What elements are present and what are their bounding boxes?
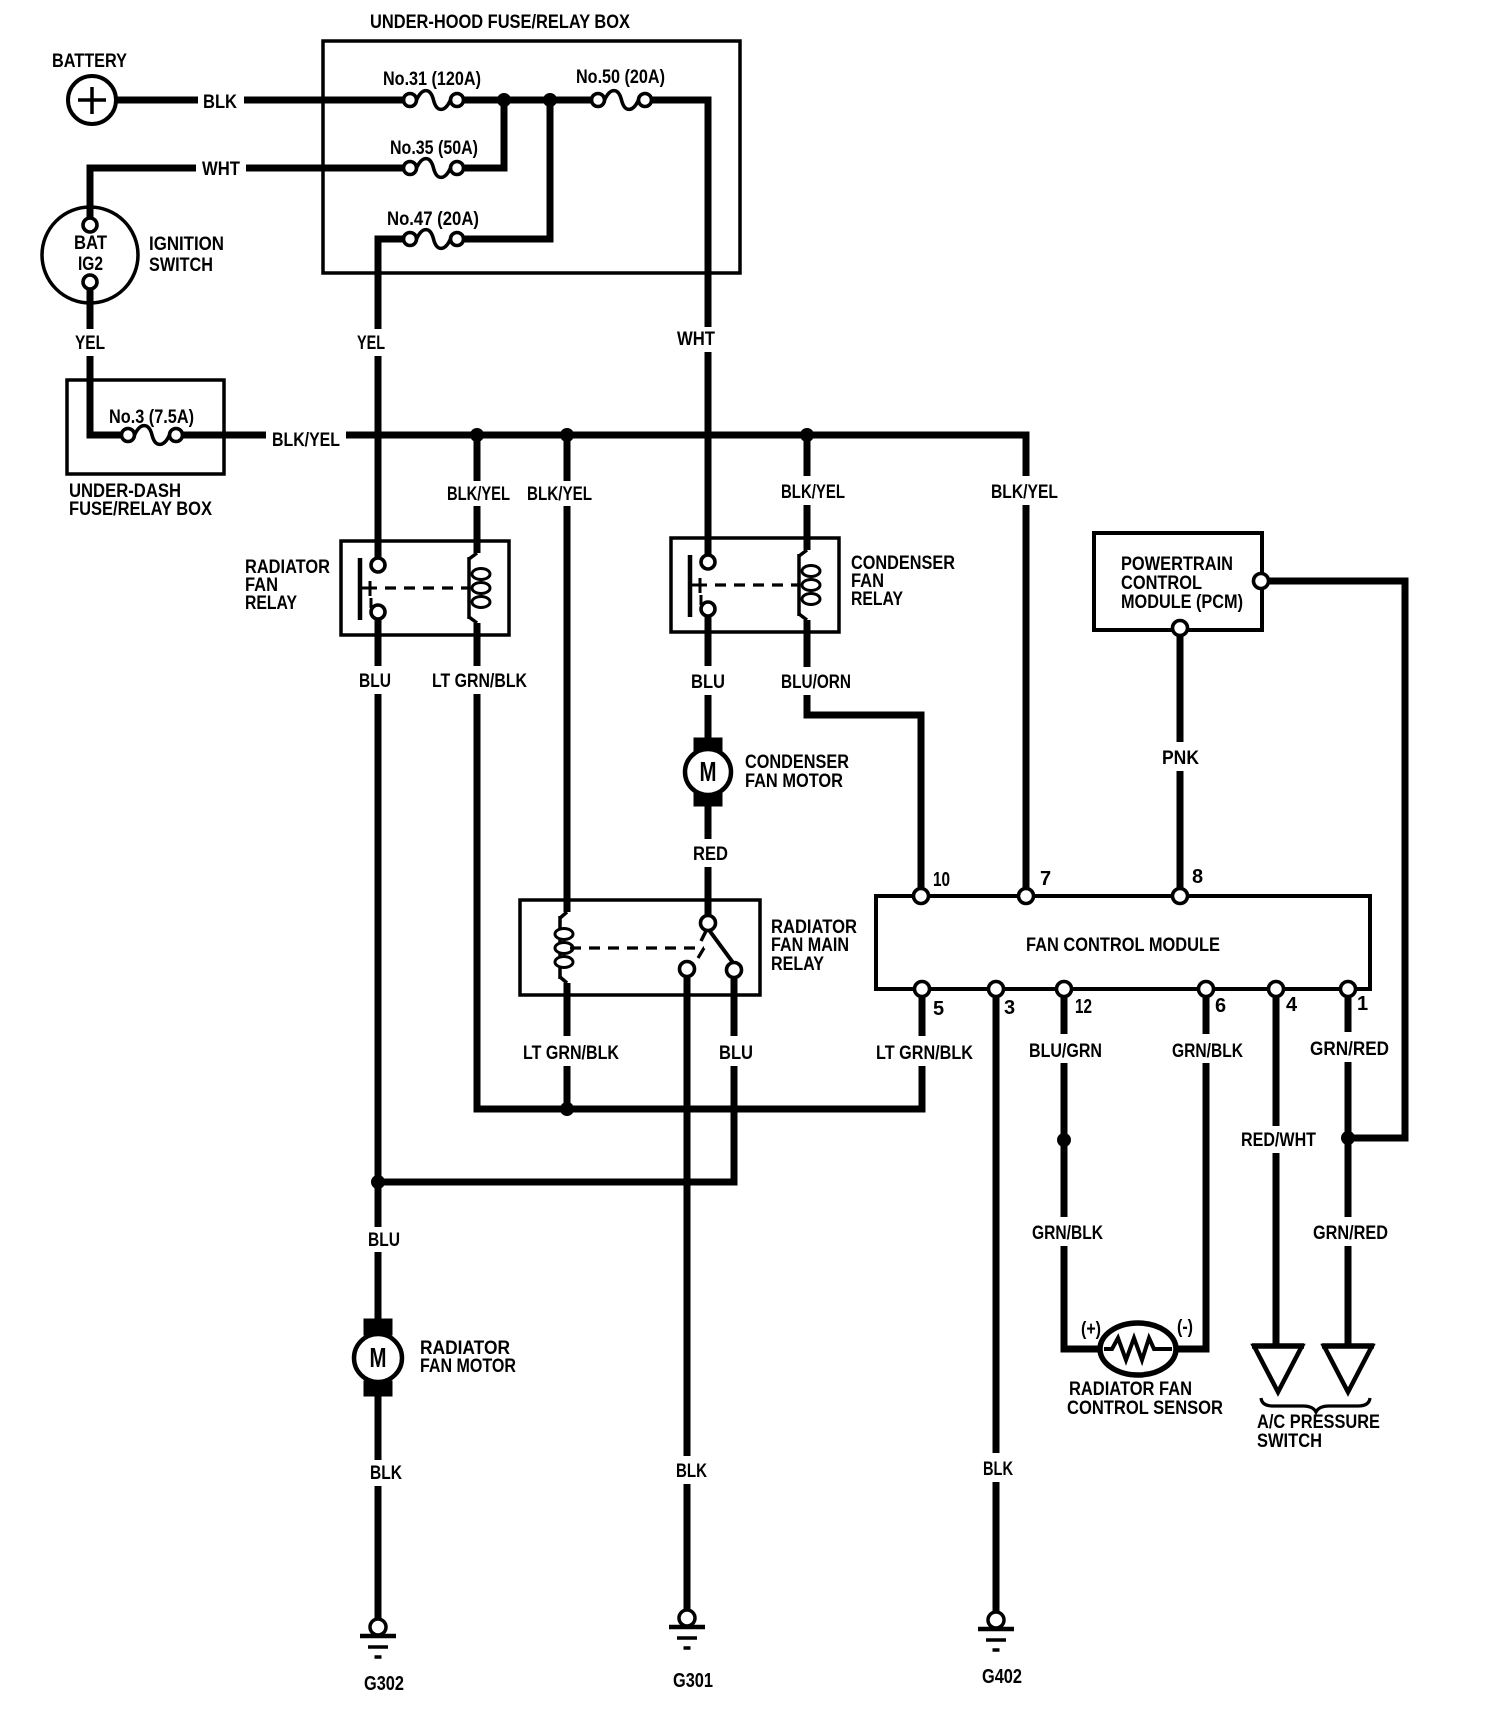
svg-text:IG2: IG2 bbox=[78, 254, 103, 275]
svg-text:3: 3 bbox=[1004, 997, 1015, 1019]
svg-text:(+): (+) bbox=[1081, 1319, 1101, 1340]
svg-text:BLU: BLU bbox=[719, 1043, 753, 1064]
svg-text:RELAY: RELAY bbox=[245, 593, 297, 614]
svg-text:6: 6 bbox=[1215, 995, 1226, 1017]
svg-text:BLK: BLK bbox=[983, 1459, 1013, 1480]
svg-text:BLK/YEL: BLK/YEL bbox=[781, 482, 845, 503]
svg-text:LT GRN/BLK: LT GRN/BLK bbox=[876, 1043, 973, 1064]
svg-text:PNK: PNK bbox=[1162, 748, 1199, 769]
svg-text:FAN MOTOR: FAN MOTOR bbox=[745, 771, 843, 792]
svg-text:RADIATOR FAN: RADIATOR FAN bbox=[1069, 1379, 1192, 1400]
svg-text:BLU: BLU bbox=[359, 671, 391, 692]
svg-text:A/C PRESSURE: A/C PRESSURE bbox=[1257, 1412, 1380, 1433]
svg-text:MODULE (PCM): MODULE (PCM) bbox=[1121, 592, 1243, 613]
svg-text:GRN/RED: GRN/RED bbox=[1310, 1039, 1389, 1060]
svg-text:IGNITION: IGNITION bbox=[149, 234, 224, 255]
svg-text:FAN CONTROL MODULE: FAN CONTROL MODULE bbox=[1026, 935, 1220, 956]
svg-text:BLK/YEL: BLK/YEL bbox=[447, 484, 510, 505]
svg-text:No.31 (120A): No.31 (120A) bbox=[383, 69, 481, 90]
svg-text:SWITCH: SWITCH bbox=[1257, 1431, 1322, 1452]
svg-text:No.47 (20A): No.47 (20A) bbox=[387, 209, 479, 230]
svg-text:BLU: BLU bbox=[368, 1230, 400, 1251]
svg-text:4: 4 bbox=[1286, 994, 1298, 1016]
svg-text:BLK: BLK bbox=[203, 92, 237, 113]
svg-text:YEL: YEL bbox=[357, 333, 385, 354]
svg-text:FAN MOTOR: FAN MOTOR bbox=[420, 1356, 516, 1377]
svg-text:BLU/GRN: BLU/GRN bbox=[1029, 1041, 1102, 1062]
svg-text:RELAY: RELAY bbox=[771, 954, 824, 975]
svg-text:M: M bbox=[700, 756, 717, 787]
svg-text:BATTERY: BATTERY bbox=[52, 51, 127, 72]
svg-text:RELAY: RELAY bbox=[851, 589, 903, 610]
svg-text:No.35 (50A): No.35 (50A) bbox=[390, 138, 478, 159]
svg-text:BLK: BLK bbox=[370, 1463, 402, 1484]
svg-text:WHT: WHT bbox=[677, 329, 715, 350]
svg-text:BLK/YEL: BLK/YEL bbox=[991, 482, 1058, 503]
svg-text:FUSE/RELAY BOX: FUSE/RELAY BOX bbox=[69, 499, 212, 520]
svg-text:(-): (-) bbox=[1177, 1317, 1193, 1338]
svg-text:WHT: WHT bbox=[202, 159, 240, 180]
svg-text:RED: RED bbox=[693, 844, 728, 865]
svg-text:BLK/YEL: BLK/YEL bbox=[272, 430, 340, 451]
svg-text:BLK: BLK bbox=[676, 1461, 707, 1482]
svg-text:5: 5 bbox=[933, 998, 944, 1020]
svg-text:CONDENSER: CONDENSER bbox=[745, 752, 849, 773]
svg-text:POWERTRAIN: POWERTRAIN bbox=[1121, 554, 1233, 575]
svg-text:10: 10 bbox=[933, 869, 950, 891]
svg-text:G302: G302 bbox=[364, 1673, 404, 1695]
svg-text:7: 7 bbox=[1040, 868, 1051, 890]
svg-text:UNDER-HOOD FUSE/RELAY BOX: UNDER-HOOD FUSE/RELAY BOX bbox=[370, 12, 630, 33]
svg-text:GRN/RED: GRN/RED bbox=[1313, 1223, 1388, 1244]
svg-text:BLU/ORN: BLU/ORN bbox=[781, 672, 851, 693]
svg-text:GRN/BLK: GRN/BLK bbox=[1172, 1041, 1243, 1062]
svg-text:1: 1 bbox=[1357, 993, 1368, 1015]
svg-text:LT GRN/BLK: LT GRN/BLK bbox=[523, 1043, 619, 1064]
svg-text:12: 12 bbox=[1075, 996, 1092, 1018]
svg-text:SWITCH: SWITCH bbox=[149, 255, 213, 276]
svg-text:BLU: BLU bbox=[691, 672, 725, 693]
svg-text:YEL: YEL bbox=[75, 333, 105, 354]
svg-text:No.3 (7.5A): No.3 (7.5A) bbox=[109, 407, 194, 428]
svg-text:CONTROL SENSOR: CONTROL SENSOR bbox=[1067, 1398, 1223, 1419]
svg-text:G301: G301 bbox=[673, 1670, 713, 1692]
svg-text:M: M bbox=[370, 1342, 387, 1373]
svg-text:No.50 (20A): No.50 (20A) bbox=[576, 67, 665, 88]
svg-text:CONTROL: CONTROL bbox=[1121, 573, 1202, 594]
svg-text:RED/WHT: RED/WHT bbox=[1241, 1130, 1316, 1151]
svg-text:8: 8 bbox=[1192, 866, 1203, 888]
svg-text:BAT: BAT bbox=[74, 233, 107, 254]
svg-text:G402: G402 bbox=[982, 1666, 1022, 1688]
svg-text:LT GRN/BLK: LT GRN/BLK bbox=[432, 671, 527, 692]
svg-text:GRN/BLK: GRN/BLK bbox=[1032, 1223, 1103, 1244]
svg-text:FAN MAIN: FAN MAIN bbox=[771, 935, 849, 956]
svg-text:BLK/YEL: BLK/YEL bbox=[527, 484, 592, 505]
